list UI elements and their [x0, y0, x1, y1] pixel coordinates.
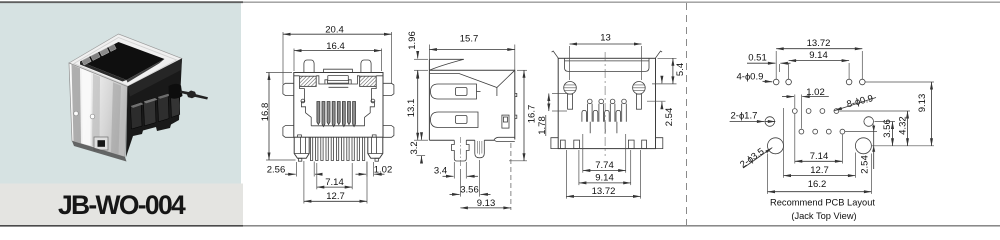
screw boss left	[564, 82, 577, 110]
svg-text:JB-WO-004: JB-WO-004	[58, 190, 186, 220]
metal top rim	[69, 34, 182, 87]
latch window center bar	[328, 80, 349, 83]
dim 13	[570, 33, 642, 80]
side tab lower-right	[383, 126, 394, 138]
corner ear left	[552, 51, 559, 58]
svg-text:9.13: 9.13	[477, 198, 496, 209]
top mounting bump left	[304, 60, 314, 73]
bottom flange right	[656, 138, 663, 149]
rim inner edge shading	[74, 38, 177, 87]
svg-text:13.72: 13.72	[592, 186, 616, 197]
label 2-d3.5	[738, 146, 772, 170]
svg-text:15.7: 15.7	[460, 34, 479, 45]
dim 12.7	[304, 161, 367, 204]
dim 9.13 pcb	[866, 82, 935, 146]
contact comb wires	[582, 99, 626, 133]
dim 3.2	[409, 133, 425, 164]
bottom comb teeth 11x	[310, 137, 364, 160]
shield hole 3	[846, 79, 852, 85]
svg-text:16.8: 16.8	[260, 103, 271, 122]
dim 0.51	[747, 53, 791, 72]
PCB layout	[730, 38, 934, 221]
stepped notch profile	[82, 57, 91, 65]
dim 16.8	[260, 73, 296, 161]
side tab upper-left	[283, 83, 294, 95]
solder spring pin	[475, 140, 485, 158]
svg-text:1.02: 1.02	[374, 164, 393, 175]
latch window	[325, 76, 351, 88]
cavity outline right	[365, 86, 377, 125]
dim 9.13	[460, 143, 511, 210]
svg-text:(Jack Top View): (Jack Top View)	[791, 211, 856, 221]
svg-text:9.14: 9.14	[595, 173, 614, 184]
base bump left	[298, 135, 302, 137]
comb tooth top faces	[131, 103, 144, 108]
label 4-d0.9	[737, 72, 773, 83]
opening left wall	[80, 62, 127, 82]
metal front face	[69, 63, 128, 157]
front view	[260, 25, 394, 204]
right edge bumps	[515, 93, 517, 118]
latch arm 1	[431, 84, 477, 99]
cavity bottom line	[311, 125, 365, 127]
comb tooth 2	[144, 98, 157, 126]
svg-text:13.72: 13.72	[807, 38, 831, 49]
svg-text:12.7: 12.7	[810, 165, 829, 176]
dim 13.72 pcb	[776, 38, 862, 79]
bottom edge shadow	[72, 141, 127, 162]
dim 4.32	[840, 111, 911, 146]
label strip	[0, 184, 243, 227]
shield hole 4	[860, 79, 866, 85]
shield dimple with hole	[94, 137, 108, 150]
base right block	[368, 137, 383, 158]
dim 7.14 pcb	[795, 114, 843, 164]
bottom border line	[0, 225, 1000, 227]
base bump right	[372, 135, 376, 137]
dim 1.02	[356, 162, 393, 177]
side latch blob	[169, 84, 183, 99]
dashed panel separator	[686, 3, 688, 225]
svg-text:2.54: 2.54	[860, 155, 871, 174]
shield hole 2	[786, 79, 792, 85]
rivet holes	[74, 111, 79, 116]
comb tooth 3	[158, 94, 170, 122]
corner ear right	[655, 51, 662, 58]
svg-text:7.14: 7.14	[810, 151, 829, 162]
right side top sheen	[128, 59, 183, 97]
black top opening	[80, 42, 165, 80]
contact pins 8x	[317, 102, 356, 127]
dim 1.02	[782, 87, 829, 129]
svg-text:1.02: 1.02	[806, 87, 825, 98]
svg-text:1.78: 1.78	[537, 116, 548, 135]
face streak dark left	[72, 65, 82, 145]
svg-text:12.7: 12.7	[326, 191, 345, 202]
latch catch circle left	[301, 99, 305, 103]
dim 9.14 pcb	[789, 50, 850, 79]
svg-text:13: 13	[600, 33, 611, 44]
side tab lower-left	[283, 126, 294, 138]
shield hole 1	[773, 79, 779, 85]
pin holes row2	[799, 129, 845, 134]
svg-text:16.4: 16.4	[326, 41, 345, 52]
dim 20.4	[283, 25, 392, 84]
locating hole 1.7 right	[864, 117, 874, 127]
dim 16.2	[768, 154, 872, 194]
svg-text:9.14: 9.14	[809, 50, 828, 61]
mounting hole 3.5 right	[855, 138, 871, 154]
base right foot	[375, 158, 378, 161]
pin holes row1	[792, 109, 838, 114]
dim 15.7	[429, 34, 514, 70]
top rounded insert	[565, 58, 649, 71]
dim 9.14	[579, 150, 631, 185]
dim 13.72 rear	[566, 150, 640, 199]
dim 1.96	[407, 31, 428, 78]
latch catch circle right	[371, 99, 375, 103]
label 8-d0.9	[835, 93, 877, 111]
opening far wall sheen	[127, 59, 165, 83]
dim 5.4	[652, 58, 686, 84]
dim 2.54 rear	[647, 77, 675, 127]
svg-text:5.4: 5.4	[675, 63, 686, 76]
dim 7.74	[583, 134, 626, 173]
svg-text:4.32: 4.32	[898, 116, 909, 135]
svg-text:13.1: 13.1	[406, 99, 417, 118]
side tab upper-right	[383, 83, 394, 95]
dim 12.7 pcb	[784, 108, 856, 178]
shell fold lines	[430, 70, 515, 96]
locating hole 1.7 left	[765, 117, 775, 127]
latch arm 2	[431, 112, 479, 128]
side view	[406, 31, 538, 210]
bottom flange left	[551, 138, 558, 149]
wire pin sticking right	[180, 91, 208, 100]
through-hole pin	[452, 140, 470, 161]
face bright band	[82, 69, 91, 146]
svg-text:7.14: 7.14	[325, 177, 344, 188]
mounting hole 3.5 left	[768, 138, 784, 154]
label 2-d1.7	[730, 111, 776, 122]
svg-text:3.56: 3.56	[460, 184, 479, 195]
face streak mid	[92, 74, 100, 148]
pin centerline	[459, 137, 461, 168]
svg-text:16.2: 16.2	[808, 179, 827, 190]
dim 13.1	[406, 70, 428, 140]
svg-text:9.13: 9.13	[917, 94, 928, 113]
shell body rectangle	[294, 73, 383, 138]
dim 3.4	[434, 162, 478, 179]
top mounting bump right	[361, 60, 371, 73]
inner top contour	[294, 76, 383, 84]
top beak	[429, 59, 464, 70]
dim 7.14	[317, 163, 352, 189]
comb tooth 4	[171, 90, 180, 117]
center line	[604, 52, 606, 156]
top border line	[0, 1, 1000, 3]
svg-text:2-ɸ1.7: 2-ɸ1.7	[731, 111, 758, 122]
right side black body	[126, 59, 182, 158]
svg-text:3.2: 3.2	[409, 141, 420, 154]
svg-text:Recommend PCB Layout: Recommend PCB Layout	[770, 197, 875, 207]
svg-text:1.96: 1.96	[407, 31, 418, 50]
dim 2.56	[267, 162, 320, 177]
base left foot	[298, 158, 301, 161]
panel stop pin	[502, 115, 509, 128]
photo panel background	[0, 3, 241, 184]
shield legs 4x	[561, 140, 647, 149]
svg-text:2.54: 2.54	[664, 108, 675, 127]
comb tooth 1	[131, 103, 143, 130]
top center ledge	[324, 69, 353, 72]
body outline	[558, 58, 655, 148]
dim 16.4	[294, 41, 382, 71]
connector photo	[69, 34, 208, 162]
right foot	[494, 137, 515, 141]
base left block	[294, 137, 309, 158]
svg-text:3.56: 3.56	[882, 119, 893, 138]
dim 1.78	[537, 94, 567, 137]
svg-text:4-ɸ0.9: 4-ɸ0.9	[737, 72, 764, 83]
cavity outline left	[300, 86, 312, 125]
dim 2.54 pcb	[845, 125, 934, 174]
svg-text:20.4: 20.4	[325, 25, 344, 36]
svg-text:3.4: 3.4	[434, 165, 447, 176]
dim 3.56	[450, 160, 491, 197]
rear view	[537, 33, 686, 199]
screw boss right	[633, 82, 646, 110]
EMI pad hatched left	[300, 76, 317, 86]
svg-text:2.56: 2.56	[267, 164, 286, 175]
svg-text:7.74: 7.74	[595, 160, 614, 171]
face streak right	[111, 82, 121, 154]
body outline	[429, 59, 514, 140]
dim 16.7	[509, 70, 538, 161]
dim 3.56 pcb	[875, 119, 896, 146]
svg-text:0.51: 0.51	[748, 53, 767, 64]
EMI pad hatched right	[360, 76, 377, 86]
